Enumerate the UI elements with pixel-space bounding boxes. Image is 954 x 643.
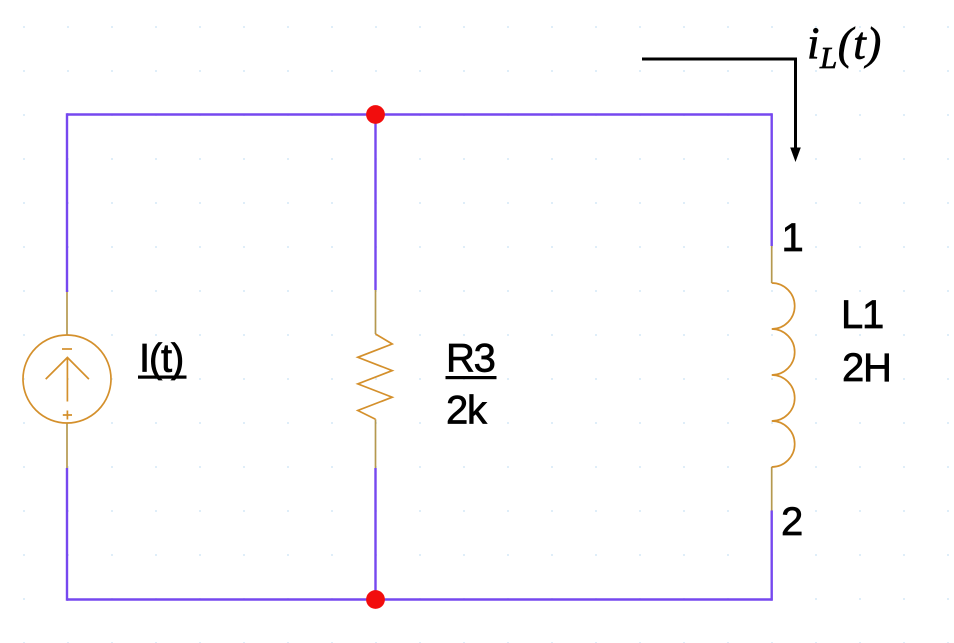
svg-text:R3: R3: [446, 337, 495, 381]
inductor L1 lead top: [771, 246, 773, 283]
svg-text:iL(t): iL(t): [807, 19, 882, 76]
svg-text:L1: L1: [841, 293, 883, 337]
wire top horizontal: [67, 113, 772, 115]
svg-text:2: 2: [781, 500, 803, 544]
current source I1 lead top: [66, 292, 68, 335]
inductor L1 lead bottom: [771, 467, 773, 511]
wire bottom horizontal: [67, 598, 772, 600]
wire middle vertical lower: [374, 468, 376, 600]
current source I1 lead bottom: [66, 423, 68, 468]
svg-text:I(t): I(t): [139, 337, 183, 381]
svg-text:1: 1: [782, 216, 804, 260]
current source I1 body: [23, 335, 111, 423]
current annotation arrow: [642, 59, 801, 162]
wire left vertical lower: [66, 468, 68, 601]
resistor R3 lead bottom: [375, 419, 377, 468]
wire left vertical upper: [66, 113, 68, 292]
svg-text:2k: 2k: [446, 389, 488, 433]
junction dot top: [366, 105, 385, 124]
resistor R3 lead top: [375, 290, 377, 334]
inductor L1 coil: [772, 283, 795, 467]
svg-text:2H: 2H: [842, 346, 891, 390]
wire right vertical lower: [771, 511, 773, 601]
wire middle vertical upper: [374, 115, 376, 291]
junction dot bottom: [366, 590, 385, 609]
resistor R3 zigzag: [358, 334, 392, 419]
wire right vertical upper: [771, 113, 773, 246]
